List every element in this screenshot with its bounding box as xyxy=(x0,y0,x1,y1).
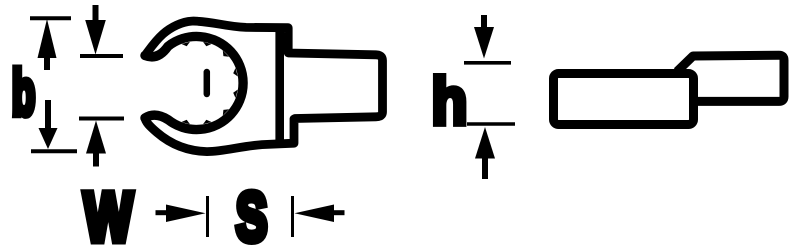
svg-text:b: b xyxy=(12,59,35,129)
S dimension: left arrow (points right) xyxy=(156,205,206,223)
dimension h: top tick line xyxy=(464,61,511,65)
dimension h: bottom arrow (points up) xyxy=(475,127,495,179)
ring 12-point teeth xyxy=(182,42,238,125)
dimension h: bottom tick line xyxy=(467,122,515,126)
wrench jaw cavity (ring + mouth) xyxy=(145,37,243,130)
wrench head outer contour xyxy=(145,21,383,152)
jaw dimension: lower arrow (points up) xyxy=(86,121,106,167)
S dimension: right tick xyxy=(291,196,294,237)
head / tang interior division line xyxy=(275,29,284,141)
S dimension: right arrow (points left) xyxy=(295,205,345,223)
svg-text:W: W xyxy=(84,178,133,252)
dimension h: top arrow (points down) xyxy=(474,15,494,59)
side view: main body xyxy=(554,74,694,125)
svg-text:h: h xyxy=(432,65,468,139)
jaw dimension: upper arrow (points down) xyxy=(85,5,106,55)
dimension b: bottom arrow (points down) xyxy=(39,100,58,149)
jaw dimension: upper tick line xyxy=(80,54,123,58)
dimension b: top tick line xyxy=(30,16,71,20)
side view: tang (offset upper rectangle with diagonal transition) xyxy=(677,55,784,101)
jaw dimension: lower tick line xyxy=(79,117,124,121)
dimension b: bottom tick line xyxy=(31,149,77,153)
dimension b: top arrow (points up) xyxy=(38,19,57,70)
S dimension: left tick xyxy=(206,196,209,237)
center slot mark xyxy=(204,72,211,94)
svg-text:S: S xyxy=(236,180,267,252)
